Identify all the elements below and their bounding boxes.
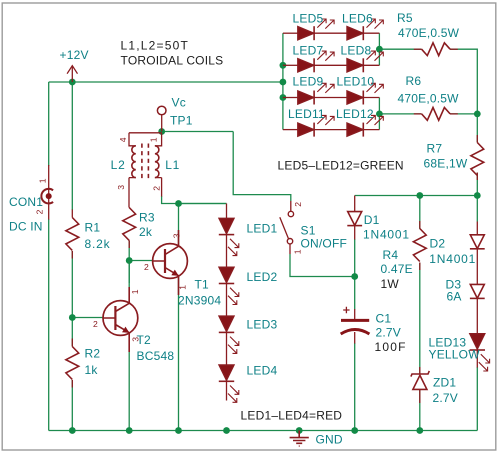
LED LED2 [219, 267, 278, 304]
svg-text:1N4001: 1N4001 [363, 228, 410, 242]
svg-text:C1: C1 [376, 311, 392, 325]
wire left vertical lower [48, 219, 50, 431]
LED LED4 [219, 364, 278, 403]
wire left vertical upper [48, 82, 50, 166]
wire S1 bottom to C1 node [290, 254, 355, 277]
lead D2-D3 [476, 249, 478, 285]
node B LED chain top [175, 200, 182, 207]
svg-text:L1,L2=50T: L1,L2=50T [121, 39, 190, 53]
svg-text:1: 1 [130, 289, 140, 294]
svg-text:2.7V: 2.7V [376, 326, 402, 340]
lead R1 bottom [71, 251, 73, 259]
node LED bus row2 [280, 62, 287, 69]
svg-text:1: 1 [37, 178, 47, 183]
lead R3 bottom [128, 241, 130, 249]
wire T2 collector to node A [128, 261, 130, 288]
svg-text:D1: D1 [364, 213, 380, 227]
connector CON1 [9, 165, 53, 234]
wire R1 bottom to T2 base node [71, 251, 73, 347]
lead R6 right [450, 113, 458, 115]
svg-text:LED7: LED7 [293, 43, 324, 57]
wire C1 to ground [354, 343, 356, 431]
node GND tap [296, 427, 303, 434]
wire LED matrix left bus [282, 33, 284, 129]
lead R5 left [414, 48, 422, 50]
resistor R1 [66, 218, 111, 251]
resistor R4 [381, 229, 427, 291]
lead C1 minus pin [354, 332, 356, 344]
wire D1 cathode to C1 [354, 239, 356, 310]
resistor R6 [398, 74, 460, 120]
lead LED4 cathode [226, 381, 228, 400]
svg-text:68E,1W: 68E,1W [424, 157, 468, 171]
svg-text:LED8: LED8 [341, 43, 372, 57]
lead R7 top [476, 135, 478, 143]
wire R4 to ZD1 [419, 263, 421, 374]
node T1 emitter ground [175, 427, 182, 434]
lead LED3-LED4 [226, 332, 228, 365]
lead D3-LED13 [476, 298, 478, 333]
svg-text:LED2: LED2 [247, 270, 278, 284]
svg-text:GND: GND [316, 433, 343, 447]
svg-text:470E,0.5W: 470E,0.5W [398, 92, 460, 106]
wire R7 to D2 [476, 173, 478, 222]
svg-text:R4: R4 [383, 248, 399, 262]
diode D2 [429, 235, 484, 266]
svg-text:S1: S1 [301, 223, 316, 237]
wire D1 anode stub [354, 196, 356, 212]
node T2 base [69, 314, 76, 321]
svg-text:LED5–LED12=GREEN: LED5–LED12=GREEN [278, 158, 404, 172]
svg-text:100F: 100F [375, 340, 407, 354]
wire R5 right to right bus [450, 49, 477, 142]
lead row LED5 anode [283, 32, 298, 34]
svg-text:LED5: LED5 [293, 12, 324, 26]
coil L1 [155, 146, 159, 178]
wire L1 pin2 to node B [162, 196, 227, 204]
transistor T2 [93, 261, 174, 364]
svg-text:6A: 6A [447, 290, 462, 304]
wire T2 emitter to ground [128, 334, 130, 431]
wire R5 left [379, 48, 421, 50]
node C1 top [351, 273, 358, 280]
wire T2 base [72, 317, 103, 319]
wire T1 collector to node B [178, 204, 180, 246]
diode D1 [347, 212, 410, 242]
zener ZD1 [411, 367, 458, 405]
svg-text:R7: R7 [427, 142, 443, 156]
LED LED3 [219, 316, 278, 353]
svg-text:1N4001: 1N4001 [429, 252, 476, 266]
svg-text:L1: L1 [165, 158, 180, 172]
LED LED12 [336, 107, 383, 137]
svg-text:CON1: CON1 [9, 195, 43, 209]
lead row LED11-LED12 middle [314, 129, 347, 131]
svg-text:8.2k: 8.2k [85, 237, 111, 251]
svg-text:L2: L2 [111, 158, 126, 172]
resistor R7 [424, 142, 484, 176]
capacitor C1 [341, 307, 407, 354]
lead C1 plus pin [354, 309, 356, 320]
svg-text:2.7V: 2.7V [433, 391, 459, 405]
svg-text:3: 3 [116, 185, 126, 190]
svg-text:2N3904: 2N3904 [178, 294, 221, 308]
svg-text:LED10: LED10 [337, 75, 375, 89]
LED LED5 [293, 12, 335, 41]
node R2 ground [69, 427, 76, 434]
svg-text:2k: 2k [139, 225, 153, 239]
switch S1 [280, 201, 347, 254]
lead R7 bottom [476, 173, 478, 181]
resistor R2 [66, 347, 100, 380]
wire LED matrix right bus upper [378, 33, 380, 65]
LED LED9 [293, 75, 335, 105]
svg-text:D2: D2 [430, 236, 446, 250]
node A T1 base [126, 257, 133, 264]
wire R3 to node A [128, 241, 130, 284]
node top rail to LED bus [280, 79, 287, 86]
LED LED7 [293, 43, 335, 72]
svg-text:R5: R5 [397, 11, 413, 25]
node R6 right bus [474, 111, 481, 118]
svg-text:BC548: BC548 [137, 349, 175, 363]
lead row LED7-LED8 middle [314, 64, 347, 66]
wire bend down to S1 [233, 132, 291, 202]
svg-text:2: 2 [35, 209, 45, 214]
lead LED2-LED3 [226, 284, 228, 317]
resistor R3 [123, 208, 155, 241]
wire R1 branch top [71, 82, 73, 210]
diode D3 [446, 278, 485, 304]
node R6 tap [376, 111, 383, 118]
node LED bus row3 [280, 94, 287, 101]
lead rail-D2 [476, 222, 478, 235]
node R5 tap [376, 46, 383, 53]
wire LED13 to ground rail [476, 367, 478, 431]
svg-text:R6: R6 [406, 74, 422, 88]
svg-text:1: 1 [178, 285, 188, 290]
lead LED1 anode [226, 204, 228, 219]
lead row LED11 anode [283, 129, 298, 131]
svg-text:TOROIDAL COILS: TOROIDAL COILS [121, 54, 224, 68]
wire TP1 node to bend [162, 131, 234, 133]
wire T1 base [129, 260, 153, 262]
svg-text:R3: R3 [139, 211, 155, 225]
svg-text:YELLOW: YELLOW [429, 348, 481, 362]
lead R1 top [71, 210, 73, 218]
svg-text:3: 3 [172, 233, 182, 238]
wire R2 to ground rail [71, 380, 73, 431]
svg-text:T1: T1 [195, 278, 210, 292]
core dashed lines [142, 144, 149, 181]
svg-text:LED3: LED3 [247, 318, 278, 332]
svg-text:R2: R2 [85, 347, 101, 361]
node +12V tap [69, 79, 76, 86]
wire node B to LED1 chain [179, 203, 227, 205]
svg-text:R1: R1 [85, 221, 101, 235]
svg-text:LED4: LED4 [247, 364, 278, 378]
svg-text:4: 4 [118, 137, 128, 142]
LED LED6 [342, 12, 383, 41]
svg-text:LED1–LED4=RED: LED1–LED4=RED [241, 408, 343, 422]
lead row LED5-LED6 middle [314, 32, 347, 34]
svg-text:2: 2 [144, 262, 149, 272]
wire R4 branch top [419, 196, 421, 230]
transformer L1 L2 [111, 133, 181, 208]
svg-text:LED11: LED11 [288, 107, 325, 121]
svg-text:Vc: Vc [172, 95, 186, 109]
lead row LED8 cathode [363, 64, 379, 66]
wire R6 right [450, 113, 477, 115]
LED LED11 [288, 107, 334, 137]
svg-text:TP1: TP1 [170, 114, 193, 128]
LED LED8 [341, 43, 384, 72]
svg-text:1: 1 [149, 137, 159, 142]
lead R4 bottom [419, 263, 421, 271]
lead LED13 cathode [476, 350, 478, 368]
lead row LED12 cathode [363, 129, 379, 131]
node TP1 [158, 128, 165, 135]
svg-text:T2: T2 [137, 333, 152, 347]
wire ZD1 to ground [419, 390, 421, 431]
svg-text:2: 2 [93, 319, 98, 329]
svg-text:2: 2 [151, 186, 161, 191]
node C1 ground [351, 427, 358, 434]
ground symbol [290, 431, 343, 447]
wire top rail +12V [49, 81, 283, 83]
wire T1 emitter to ground [178, 277, 180, 431]
svg-text:DC IN: DC IN [9, 220, 43, 234]
LED LED10 [337, 75, 384, 105]
lead row LED6 cathode [363, 32, 379, 34]
svg-text:470E,0.5W: 470E,0.5W [398, 26, 460, 40]
svg-text:0.47E: 0.47E [381, 262, 413, 276]
lead R6 left [414, 113, 422, 115]
svg-text:1k: 1k [85, 363, 99, 377]
LED LED1 [219, 218, 278, 255]
node T2 emitter ground [126, 427, 133, 434]
wire bottom rail GND [49, 430, 478, 432]
svg-text:ON/OFF: ON/OFF [301, 237, 348, 251]
lead row LED9 anode [283, 97, 298, 99]
node R7 rail [474, 192, 481, 199]
resistor R5 [397, 11, 460, 56]
svg-text:2: 2 [293, 202, 303, 207]
svg-text:ZD1: ZD1 [433, 376, 456, 390]
lead R4 top [419, 221, 421, 229]
svg-text:LED1: LED1 [247, 222, 278, 236]
wire LED matrix right bus lower [378, 98, 380, 130]
node ZD1 ground [416, 427, 423, 434]
lead R5 right [450, 48, 458, 50]
node LED4 ground [223, 427, 230, 434]
power flag +12V [60, 48, 89, 82]
svg-text:LED9: LED9 [293, 75, 324, 89]
test point TP1 Vc [157, 95, 192, 131]
node R4 rail [416, 192, 423, 199]
wire R6 left [379, 113, 421, 115]
lead R2 bottom [71, 380, 73, 388]
svg-text:+12V: +12V [60, 48, 89, 62]
lead row LED9-LED10 middle [314, 97, 347, 99]
transistor T1 [144, 230, 221, 308]
wire D1 rail [355, 195, 478, 197]
lead D1 cathode [354, 226, 356, 240]
lead row LED7 anode [283, 64, 298, 66]
coil L2 [132, 146, 136, 178]
svg-text:1W: 1W [381, 277, 400, 291]
lead row LED10 cathode [363, 97, 379, 99]
lead R2 top [71, 339, 73, 347]
svg-text:LED12: LED12 [336, 107, 374, 121]
lead LED1-LED2 [226, 235, 228, 268]
LED LED13 [429, 334, 490, 371]
svg-text:LED6: LED6 [342, 12, 373, 26]
